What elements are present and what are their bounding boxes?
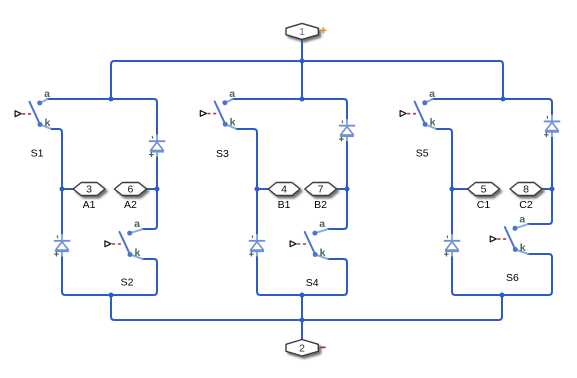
S1 control input triangle xyxy=(15,111,21,117)
S6 control dashed line xyxy=(497,238,508,240)
wire: S4 a stub xyxy=(315,229,328,233)
node: bottom bus / port 2 tap xyxy=(300,318,305,323)
switch S1 xyxy=(30,101,43,128)
svg-text:a: a xyxy=(429,88,435,100)
svg-text:S2: S2 xyxy=(121,277,134,289)
node: leg A top junction xyxy=(109,97,114,102)
svg-text:7: 7 xyxy=(318,184,324,196)
svg-text:a: a xyxy=(229,88,235,100)
svg-text:A2: A2 xyxy=(124,199,137,211)
S5 control input triangle xyxy=(400,111,406,117)
svg-text:k: k xyxy=(430,117,436,129)
svg-text:k: k xyxy=(230,117,236,129)
node: leg C bottom junction xyxy=(500,293,505,298)
svg-text:5: 5 xyxy=(481,184,487,196)
wire: S2 k stub xyxy=(130,255,142,259)
port 1 polarity sign xyxy=(321,28,326,33)
S2 control input triangle xyxy=(105,241,111,247)
diode D3 xyxy=(339,119,355,141)
wire: bottom DC bus xyxy=(111,295,502,320)
wire: node C1 stub to port 5 xyxy=(452,188,468,190)
wire: leg B bottom drop and port 2 riser xyxy=(301,295,303,340)
svg-text:S3: S3 xyxy=(216,148,229,160)
svg-text:6: 6 xyxy=(127,184,133,196)
S3 control input triangle xyxy=(200,111,206,117)
node: top bus / port 1 tap xyxy=(300,59,305,64)
svg-text:k: k xyxy=(320,247,326,259)
node C2 xyxy=(550,187,555,192)
wire: node A1 stub to port 3 xyxy=(62,188,73,190)
wire: leg C right rail D5 to node C2 to S6.a xyxy=(528,136,552,224)
S4 control dashed line xyxy=(297,243,308,245)
diode D2 xyxy=(54,234,70,256)
svg-text:a: a xyxy=(134,218,140,230)
svg-text:a: a xyxy=(44,88,50,100)
wire: S5 k down left rail through node C1 to D6 xyxy=(437,129,452,234)
wire: S1 k down left rail through node A1 to D2 xyxy=(52,129,62,234)
svg-text:2: 2 xyxy=(299,343,305,355)
S4 control input triangle xyxy=(290,241,296,247)
switch S3 xyxy=(215,100,228,127)
switch S6 xyxy=(505,226,518,252)
svg-text:C1: C1 xyxy=(477,199,491,211)
wire: node B1 stub to port 4 xyxy=(257,188,269,190)
svg-text:S1: S1 xyxy=(31,147,44,159)
diode D1 xyxy=(149,135,165,157)
node A2 xyxy=(155,187,160,192)
wire: S5 a stub xyxy=(425,99,433,102)
wire: S2 a stub xyxy=(130,229,143,233)
wire: leg A right rail D1 to node A2 to S2.a xyxy=(142,156,157,229)
S5 control dashed line xyxy=(407,113,418,115)
svg-text:k: k xyxy=(134,247,140,259)
node C1 xyxy=(450,187,455,192)
wire: leg B top rail S3.a to D3 xyxy=(232,99,347,119)
svg-text:1: 1 xyxy=(299,26,305,38)
node: leg A bottom junction xyxy=(109,293,114,298)
node: leg B top junction xyxy=(300,97,305,102)
svg-text:B2: B2 xyxy=(314,199,327,211)
wire: port 1 riser to leg B top node xyxy=(301,39,303,99)
node A1 xyxy=(60,187,65,192)
node: leg B bottom junction xyxy=(300,293,305,298)
wire: leg A left rail below D2 and bottom rail xyxy=(62,256,157,295)
switch S5 xyxy=(415,100,428,127)
port 8 (C2) xyxy=(510,183,542,196)
S6 control input triangle xyxy=(490,236,496,242)
node: leg C top junction xyxy=(501,97,506,102)
port 1 xyxy=(286,23,318,39)
wire: S1 a stub xyxy=(40,99,48,103)
svg-text:a: a xyxy=(319,218,325,230)
diode D6 xyxy=(444,234,460,256)
S3 control dashed line xyxy=(207,113,218,115)
svg-text:B1: B1 xyxy=(278,199,291,211)
wire: S5 k stub xyxy=(425,124,437,129)
wire: port 8 stub to node C2 xyxy=(542,188,552,190)
wire: leg C left rail below D6 and bottom rail xyxy=(452,254,552,295)
S1 control dashed line xyxy=(22,113,33,115)
wire: top DC bus xyxy=(111,61,503,99)
port 4 (B1) xyxy=(268,183,300,196)
wire: S4 k stub xyxy=(315,255,327,259)
port 5 (C1) xyxy=(468,183,500,196)
wire: leg A top rail S1.a to D1 xyxy=(47,99,157,135)
svg-text:3: 3 xyxy=(86,184,92,196)
svg-text:A1: A1 xyxy=(83,199,96,211)
port 2 polarity sign xyxy=(321,346,325,348)
wire: leg C top rail S5.a to D5 xyxy=(432,99,552,115)
wire: port 7 stub to node B2 xyxy=(336,188,347,190)
wire: leg B left rail below D4 and bottom rail xyxy=(257,256,347,295)
diode D5 xyxy=(544,115,560,137)
svg-text:S6: S6 xyxy=(506,272,519,284)
node B1 xyxy=(255,187,260,192)
wire: leg B right rail D3 to node B2 to S4.a xyxy=(327,141,347,229)
svg-text:8: 8 xyxy=(523,184,529,196)
wire: S3 a stub xyxy=(225,99,233,102)
port 2 xyxy=(286,340,318,357)
port 6 (A2) xyxy=(114,183,146,196)
svg-text:S5: S5 xyxy=(416,148,429,160)
diode D4 xyxy=(249,234,265,256)
svg-text:C2: C2 xyxy=(519,199,533,211)
wire: S6 a stub xyxy=(515,224,528,228)
svg-text:k: k xyxy=(44,117,50,129)
svg-text:S4: S4 xyxy=(306,277,319,289)
wire: S6 k stub xyxy=(515,250,528,254)
wire: port 6 stub to node A2 xyxy=(146,188,157,190)
switch S2 xyxy=(120,231,133,257)
port 3 (A1) xyxy=(73,183,105,196)
wire: S3 k down left rail through node B1 to D4 xyxy=(237,129,257,234)
wire: S3 k stub xyxy=(225,124,237,129)
svg-text:a: a xyxy=(519,213,525,225)
svg-text:4: 4 xyxy=(281,184,287,196)
switch S4 xyxy=(305,231,318,257)
svg-text:k: k xyxy=(520,242,526,254)
port 7 (B2) xyxy=(305,183,337,196)
wire: S1 k stub xyxy=(40,125,52,130)
node B2 xyxy=(345,187,350,192)
S2 control dashed line xyxy=(112,243,123,245)
